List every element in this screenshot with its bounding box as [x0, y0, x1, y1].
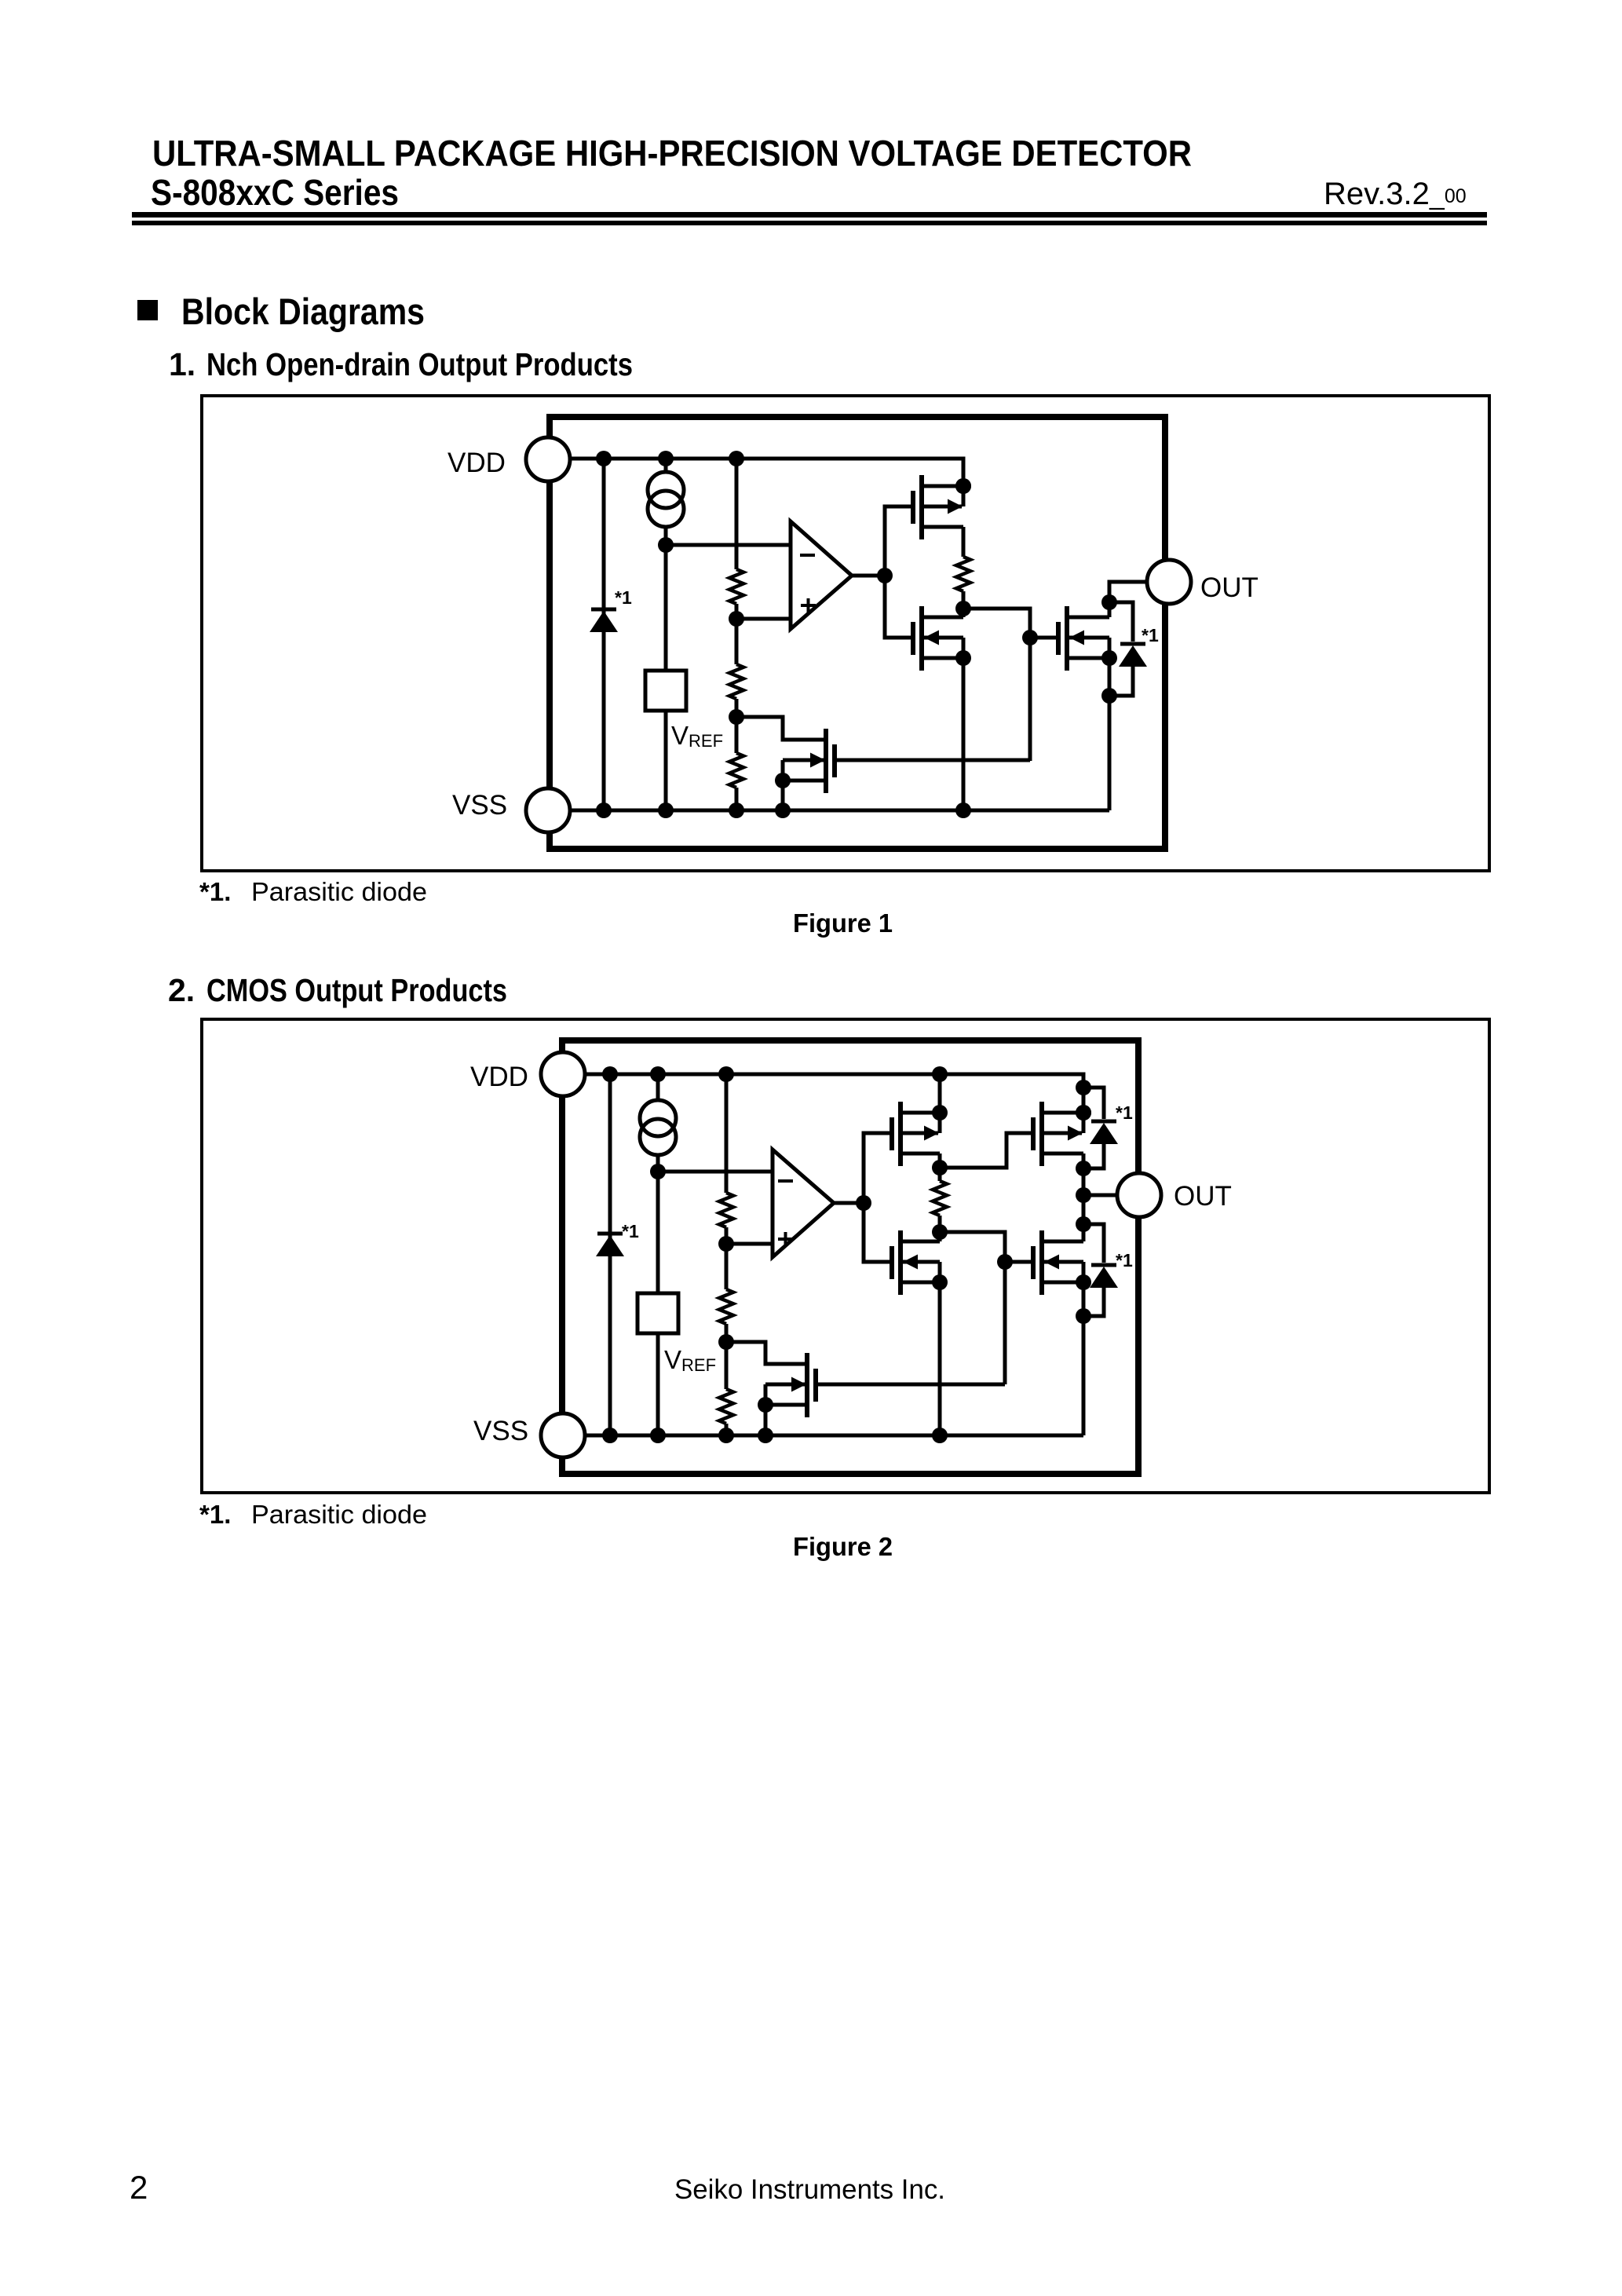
- wire: M15 gate line: [816, 1383, 1005, 1387]
- svg-text:VREF: VREF: [671, 721, 723, 751]
- wire: M14 source to VSS rail: [1082, 1282, 1086, 1435]
- parasitic diode D3: [597, 1232, 623, 1236]
- VDD pad (figure 2): [541, 1052, 585, 1096]
- junction: VDD/diode: [596, 451, 612, 466]
- junction: first stage output node: [955, 601, 971, 616]
- wire: D5 anode to M14 source: [1083, 1288, 1104, 1316]
- junction: VDD/M13 source: [1076, 1105, 1091, 1121]
- svg-text:*1: *1: [622, 1221, 639, 1241]
- svg-text:VREF: VREF: [664, 1345, 716, 1375]
- junction: VDD/R-ladder: [718, 1066, 734, 1082]
- junction: VDD/current source: [658, 451, 674, 466]
- voltage reference VREF box (figure 2): [637, 1293, 678, 1333]
- wire: ladder tap to M15 drain: [726, 1342, 806, 1364]
- junction: M14 gate node: [997, 1254, 1013, 1270]
- OUT pad (figure 2): [1117, 1173, 1161, 1217]
- comparator U2 (figure 2): [773, 1150, 834, 1257]
- wire: to comparator non-inverting input: [726, 1242, 773, 1246]
- svg-text:*1.: *1.: [199, 1500, 231, 1529]
- svg-text:ULTRA-SMALL PACKAGE HIGH-PRECI: ULTRA-SMALL PACKAGE HIGH-PRECISION VOLTA…: [152, 133, 1192, 174]
- transistor M13 (PMOS output, figure 2): [1031, 1117, 1036, 1150]
- resistor R5: [719, 1193, 733, 1227]
- junction: lower stage node: [932, 1224, 948, 1240]
- VSS pad (figure 1): [526, 788, 570, 832]
- transistor M12 (NMOS first stage, figure 2): [890, 1246, 894, 1279]
- wire: comparator output: [852, 574, 885, 578]
- svg-text:CMOS Output Products: CMOS Output Products: [206, 972, 507, 1008]
- VDD pad (figure 1): [526, 437, 570, 481]
- wire: M12 source to VSS rail: [938, 1282, 942, 1435]
- junction: current source / comparator minus input: [650, 1164, 666, 1179]
- svg-text:S-808xxC Series: S-808xxC Series: [151, 172, 399, 213]
- resistor R2: [729, 664, 743, 699]
- svg-text:VSS: VSS: [473, 1416, 528, 1446]
- wire: M2 drain up to stage node: [962, 609, 966, 617]
- junction: VDD/D4 branch: [1076, 1080, 1091, 1095]
- resistor R7: [719, 1389, 733, 1424]
- wire: gate drive to M1/M2: [885, 506, 913, 638]
- junction: VDD/diode: [602, 1066, 618, 1082]
- svg-text:Figure 1: Figure 1: [793, 909, 893, 938]
- current source I2: [656, 1074, 660, 1100]
- junction: OUT node (figure 2): [1076, 1187, 1091, 1203]
- junction: VDD/M1 source: [955, 478, 971, 494]
- figure 1 outer frame: [202, 396, 1489, 871]
- svg-text:Parasitic diode: Parasitic diode: [251, 1500, 427, 1529]
- svg-text:VDD: VDD: [448, 448, 506, 478]
- wire: M11 drain down: [938, 1153, 942, 1168]
- junction: VREF / VSS rail: [650, 1428, 666, 1443]
- svg-text:VDD: VDD: [470, 1062, 528, 1092]
- minus sign: [800, 554, 815, 557]
- transistor M1 (PMOS, figure 1): [911, 491, 915, 524]
- svg-text:*1.: *1.: [199, 877, 231, 906]
- junction: M14 source / D5 anode: [1076, 1308, 1091, 1324]
- parasitic diode D1: [591, 608, 616, 612]
- section bullet: [137, 300, 158, 320]
- wire: R-ladder column (figure 1): [735, 459, 739, 569]
- resistor R4 (load): [956, 557, 970, 591]
- junction: diode / VSS rail: [596, 803, 612, 818]
- svg-text:Nch Open-drain Output Products: Nch Open-drain Output Products: [206, 346, 633, 382]
- wire: parasitic diode branch (figure 2): [608, 1074, 612, 1435]
- wire: M15 source to VSS rail: [764, 1405, 768, 1435]
- wire: OUT node to pad: [1083, 1194, 1119, 1197]
- svg-text:Figure 2: Figure 2: [793, 1532, 893, 1561]
- svg-text:Parasitic diode: Parasitic diode: [251, 877, 427, 906]
- svg-text:Block Diagrams: Block Diagrams: [181, 291, 425, 332]
- wire: VREF to VSS rail: [664, 711, 668, 810]
- wire: VDD drop to M11: [938, 1074, 942, 1113]
- svg-text:OUT: OUT: [1174, 1181, 1232, 1212]
- wire: OUT node to parasitic diode D2: [1109, 602, 1133, 642]
- svg-text:2.: 2.: [168, 972, 195, 1008]
- junction: M2 source / VSS rail: [955, 803, 971, 818]
- wire: stage node to output gate: [963, 609, 1030, 761]
- wire: R-ladder column (figure 2): [725, 1074, 729, 1193]
- OUT pad (figure 1): [1147, 560, 1191, 604]
- minus sign: [778, 1179, 793, 1183]
- wire: M13 drain down to OUT column: [1082, 1153, 1086, 1241]
- wire: D5 branch: [1083, 1224, 1104, 1263]
- wire: parasitic diode branch (figure 1): [602, 459, 606, 810]
- svg-text:*1: *1: [615, 587, 632, 608]
- wire: D4 branch from VDD: [1083, 1088, 1104, 1119]
- svg-text:1.: 1.: [169, 346, 195, 382]
- wire: to comparator inverting input: [666, 543, 791, 547]
- junction: ladder / VSS rail: [729, 803, 744, 818]
- junction: D5 branch node: [1076, 1216, 1091, 1232]
- svg-text:OUT: OUT: [1200, 572, 1259, 603]
- transistor M2 (NMOS, figure 1): [911, 622, 915, 655]
- transistor M11 (PMOS first stage, figure 2): [890, 1117, 894, 1150]
- junction: VREF / VSS rail: [658, 803, 674, 818]
- wire: M2 source to VSS rail: [962, 658, 966, 810]
- svg-text:*1: *1: [1116, 1250, 1133, 1270]
- IC boundary box (figure 2): [562, 1037, 1138, 1044]
- svg-text:*1: *1: [1116, 1102, 1133, 1123]
- junction: ladder tap / M15 drain: [718, 1334, 734, 1350]
- junction: comparator output node: [856, 1195, 871, 1211]
- junction: VDD/current source: [650, 1066, 666, 1082]
- wire: M3 source to VSS rail: [1108, 658, 1112, 810]
- junction: M15 source / VSS rail: [758, 1428, 773, 1443]
- wire: current source to VREF: [664, 545, 668, 671]
- resistor R1: [729, 569, 743, 604]
- wire: to comparator inverting input: [658, 1170, 773, 1174]
- junction: diode / VSS rail: [602, 1428, 618, 1443]
- plus sign: [801, 604, 816, 607]
- wire: VSS rail (figure 2): [585, 1434, 1083, 1438]
- comparator U1 (figure 1): [791, 521, 852, 629]
- voltage reference VREF box: [645, 671, 686, 711]
- junction: VDD/M11 source column: [932, 1066, 948, 1082]
- wire: D4 anode to M13 drain: [1083, 1144, 1104, 1168]
- junction: M3 source node: [1101, 688, 1117, 704]
- wire: to M14 gate: [1005, 1260, 1033, 1264]
- wire: M1 drain to load resistor: [962, 527, 966, 557]
- parasitic diode D4: [1091, 1120, 1116, 1124]
- wire: to comparator non-inverting input: [736, 617, 791, 621]
- junction: M12 source / VSS rail: [932, 1428, 948, 1443]
- junction: gate node of M3: [1022, 630, 1038, 645]
- wire: ladder tap to M5 drain: [736, 717, 824, 740]
- transistor M5 (NMOS mirrored, figure 1): [832, 744, 837, 777]
- resistor R6: [719, 1289, 733, 1324]
- junction: VDD/R-ladder: [729, 451, 744, 466]
- junction: ladder tap / comparator plus input: [729, 611, 744, 627]
- parasitic diode D5: [1091, 1263, 1116, 1267]
- current source I1: [664, 459, 668, 472]
- figure 2 outer frame: [202, 1019, 1489, 1493]
- svg-text:Rev.3.2_00: Rev.3.2_00: [1324, 177, 1467, 211]
- junction: ladder tap / M5 drain: [729, 709, 744, 725]
- wire: M5 gate line: [835, 759, 1030, 762]
- junction: ladder / VSS rail: [718, 1428, 734, 1443]
- svg-text:*1: *1: [1142, 625, 1159, 645]
- wire: VDD rail (figure 2): [585, 1074, 1083, 1133]
- parasitic diode D2: [1120, 642, 1145, 646]
- double rule: [132, 212, 1487, 218]
- junction: M11 drain node: [932, 1160, 948, 1175]
- wire: lower stage node to M14 gate / M15 gate: [940, 1232, 1005, 1384]
- wire: current source to VREF: [656, 1172, 660, 1293]
- wire: VREF to VSS rail: [656, 1333, 660, 1435]
- wire: comparator output: [834, 1201, 864, 1205]
- wire: M3 drain to OUT pad: [1109, 582, 1149, 617]
- VSS pad (figure 2): [541, 1413, 585, 1457]
- junction: OUT node: [1101, 594, 1117, 610]
- plus sign: [778, 1238, 793, 1241]
- svg-text:2: 2: [130, 2169, 148, 2206]
- svg-text:VSS: VSS: [452, 790, 507, 821]
- wire: D2 anode to M3 source: [1109, 667, 1133, 696]
- junction: current source / comparator minus input: [658, 537, 674, 553]
- svg-text:Seiko Instruments Inc.: Seiko Instruments Inc.: [674, 2174, 945, 2205]
- wire: upper stage node to M13 gate: [940, 1133, 1033, 1168]
- junction: M13 drain / D4 anode: [1076, 1161, 1091, 1176]
- wire: M12 drain up to node: [938, 1232, 942, 1241]
- wire: VSS rail (figure 1): [571, 809, 1109, 813]
- IC boundary box (figure 1): [550, 414, 1165, 420]
- wire: VDD rail (figure 1): [571, 459, 963, 486]
- junction: M5 source / VSS rail: [775, 803, 791, 818]
- junction: ladder tap / comparator plus input: [718, 1236, 734, 1252]
- resistor R3: [729, 753, 743, 788]
- resistor R8 (inter-stage): [938, 1168, 942, 1181]
- transistor M14 (NMOS output, figure 2): [1031, 1246, 1036, 1279]
- transistor M15 (NMOS mirrored, figure 2): [813, 1369, 818, 1402]
- wire: gate drive to M11/M12: [864, 1133, 892, 1262]
- wire: M5 source to VSS rail: [781, 781, 785, 810]
- transistor M3 (NMOS output driver, figure 1): [1056, 622, 1061, 655]
- wire: to M3 gate: [1030, 636, 1058, 640]
- junction: comparator output node: [877, 568, 893, 583]
